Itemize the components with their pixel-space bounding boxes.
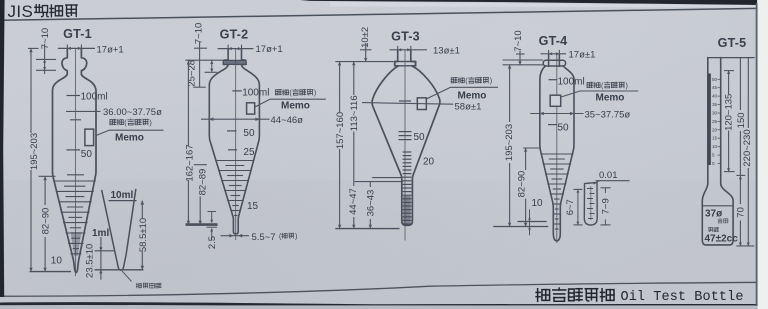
svg-text:157~160: 157~160 bbox=[335, 112, 346, 149]
GT-1 center line bbox=[75, 48, 77, 276]
GT-4 lip-level reference ticks bbox=[503, 59, 543, 61]
GT-4 tip detail hatch bbox=[587, 188, 593, 190]
GT-5 tube top line (extends as dim reference) bbox=[708, 57, 755, 59]
svg-text:10: 10 bbox=[712, 144, 718, 149]
bottom page edge (thick dark) bbox=[0, 303, 768, 305]
svg-text:Memo: Memo bbox=[596, 92, 625, 103]
svg-text:): ) bbox=[490, 77, 492, 85]
svg-text:50: 50 bbox=[712, 77, 718, 82]
GT-3 annotation leader bbox=[427, 87, 451, 99]
GT-2 center line bbox=[235, 49, 237, 240]
svg-text:23.5±10: 23.5±10 bbox=[84, 244, 95, 278]
GT-1 baseline bbox=[30, 271, 72, 273]
svg-text:15: 15 bbox=[247, 201, 259, 212]
GT-5 dim 220~230 bbox=[747, 58, 749, 128]
GT-4 vessel outline bbox=[540, 66, 574, 241]
dim 23.5±10 bbox=[100, 237, 102, 251]
GT-5 dim 120~135 bbox=[724, 70, 734, 72]
svg-text:36.00~37.75ø: 36.00~37.75ø bbox=[103, 107, 162, 118]
svg-text:47±2cc: 47±2cc bbox=[705, 233, 739, 244]
GT-4 mouth dim line 17ø±1 bbox=[541, 53, 567, 55]
svg-text:50: 50 bbox=[558, 122, 570, 133]
GT-3 dim 113~116 and 44~47 (shared line) bbox=[353, 62, 355, 95]
GT-3 pointer 58ø±1 bbox=[362, 103, 453, 105]
GT-3 baseline bbox=[335, 228, 399, 230]
title rule bbox=[0, 8, 768, 20]
svg-text:Memo: Memo bbox=[458, 90, 487, 101]
GT-3 annotation kanji 磨砂(記錄用) bbox=[451, 78, 457, 83]
svg-text:44~46ø: 44~46ø bbox=[271, 115, 304, 126]
svg-text:37ø: 37ø bbox=[705, 208, 723, 219]
GT-2 100ml tick bbox=[232, 90, 242, 92]
svg-text:113~116: 113~116 bbox=[349, 95, 360, 131]
GT-1 graduation tick bbox=[67, 174, 84, 176]
svg-text:40: 40 bbox=[712, 94, 718, 99]
svg-text:82~89: 82~89 bbox=[197, 169, 208, 196]
GT-4 dim 35~37.75ø bbox=[530, 113, 583, 115]
top page edge (dark) bbox=[300, 0, 757, 5]
svg-text:30: 30 bbox=[712, 111, 718, 116]
detail funnel baseline bbox=[95, 269, 144, 271]
GT-3 dim 36~43 bbox=[369, 182, 371, 187]
GT-5 dim 150 / 70 line bbox=[739, 58, 741, 110]
GT-3 triple ticks 50 bbox=[399, 131, 412, 133]
GT-2 mouth dim line 17ø+1 bbox=[218, 48, 254, 50]
svg-text:0.01: 0.01 bbox=[599, 170, 618, 181]
GT-3 vessel outline bbox=[372, 50, 440, 225]
GT-5 label 以下 bbox=[718, 219, 722, 223]
area below page edge bbox=[0, 305, 768, 309]
svg-text:50: 50 bbox=[81, 149, 93, 160]
svg-text:Oil Test Bottle: Oil Test Bottle bbox=[621, 290, 744, 305]
GT-2 cone graduations bbox=[215, 160, 254, 162]
GT-3 tube graduations bbox=[403, 151, 412, 153]
GT-1 dim 195~203 bbox=[28, 47, 39, 49]
GT-1 small tick bbox=[70, 119, 81, 121]
svg-text:7~9: 7~9 bbox=[601, 198, 612, 214]
GT-2 vessel outline bbox=[209, 49, 259, 234]
GT-4 center line bbox=[556, 54, 558, 243]
svg-text:10: 10 bbox=[51, 255, 63, 266]
dim 58.5±10 bbox=[141, 201, 143, 218]
GT-2 tick 50 bbox=[227, 130, 237, 132]
GT-5 inner shoulder line 37ø level bbox=[703, 205, 733, 207]
dim 7~9 bbox=[604, 188, 606, 193]
GT-2 dim 162~167 bbox=[187, 60, 189, 146]
svg-text:36~43: 36~43 bbox=[366, 190, 377, 217]
svg-text:GT-2: GT-2 bbox=[220, 28, 249, 42]
svg-text:45: 45 bbox=[712, 85, 718, 90]
svg-text:100ml: 100ml bbox=[81, 92, 108, 103]
svg-text:): ) bbox=[149, 118, 151, 127]
GT-1 bottle outline bbox=[53, 49, 97, 273]
svg-text:17ø±1: 17ø±1 bbox=[569, 49, 596, 60]
GT-2 dim 44~46ø bbox=[201, 118, 270, 120]
svg-text:15: 15 bbox=[712, 136, 718, 141]
GT-5 graduation strip bbox=[708, 74, 711, 166]
right white scan strip bbox=[758, 0, 768, 309]
svg-text:5: 5 bbox=[712, 153, 715, 158]
GT-4 dim 82~90 bbox=[523, 147, 541, 149]
0.01 underline bbox=[596, 180, 630, 182]
svg-text:150: 150 bbox=[736, 112, 747, 128]
svg-text:13ø±1: 13ø±1 bbox=[433, 46, 460, 57]
GT-3 tube-top ticks bbox=[372, 177, 401, 179]
svg-text:82~90: 82~90 bbox=[517, 171, 528, 198]
GT-5 outline bbox=[702, 58, 733, 245]
GT-2 upper dim line bbox=[199, 42, 201, 88]
GT-3 flange-level reference tick bbox=[335, 61, 394, 63]
svg-text:100ml: 100ml bbox=[242, 88, 269, 99]
GT-3 center tick bbox=[399, 100, 411, 102]
svg-text:): ) bbox=[314, 89, 316, 97]
paper shading lower-left bbox=[0, 180, 768, 309]
detail funnel 10ml level line bbox=[109, 200, 137, 202]
GT-4 dim 195~203 bbox=[509, 65, 511, 122]
svg-text:7~10: 7~10 bbox=[513, 30, 524, 51]
svg-text:20: 20 bbox=[712, 127, 718, 132]
svg-text:162~167: 162~167 bbox=[184, 144, 195, 181]
GT-4 memo patch rect bbox=[550, 95, 561, 106]
dim 6~7 bbox=[577, 189, 579, 225]
svg-text:GT-1: GT-1 bbox=[63, 27, 92, 41]
GT-3 center line bbox=[404, 50, 406, 241]
GT-2 baseline (thick) bbox=[186, 223, 218, 226]
GT-4 flange bbox=[543, 60, 565, 66]
GT-4 100ml tick bbox=[549, 79, 558, 81]
GT-1 cone graduations bbox=[53, 180, 95, 182]
GT-2 tip dim 5.5~7 bbox=[221, 235, 250, 237]
GT-3 flange bbox=[395, 62, 416, 66]
detail funnel 1ml level line bbox=[95, 250, 116, 252]
svg-text:GT-5: GT-5 bbox=[718, 36, 747, 50]
svg-text:Memo: Memo bbox=[281, 101, 310, 112]
0.01 leader bbox=[594, 181, 600, 184]
svg-text:100ml: 100ml bbox=[558, 76, 585, 87]
GT-3 mouth dim line 13ø±1 bbox=[390, 49, 428, 51]
svg-text:JIS: JIS bbox=[8, 2, 34, 21]
GT-4 neck lines bbox=[548, 54, 550, 67]
svg-text:0: 0 bbox=[712, 161, 715, 166]
GT-4 bottom ticks bbox=[518, 221, 547, 223]
GT-4 annotation kanji 磨砂(記錄用) bbox=[587, 82, 593, 87]
GT-1 pointer line 36.00~37.75ø bbox=[66, 110, 101, 112]
GT-3 tube dark fill bbox=[403, 196, 410, 224]
svg-text:82~90: 82~90 bbox=[40, 208, 51, 235]
GT-4 dim 10 small line bbox=[529, 209, 531, 235]
svg-text:70: 70 bbox=[736, 207, 747, 218]
GT-2 annotation kanji 磨砂(記錄用) bbox=[275, 90, 281, 95]
svg-text:35: 35 bbox=[712, 102, 718, 107]
GT-1 graduation 50 tick bbox=[67, 149, 81, 151]
svg-text:Memo: Memo bbox=[115, 133, 144, 144]
label 瓶底內部 bbox=[136, 283, 141, 288]
GT-4 taper graduations bbox=[540, 153, 573, 155]
GT-3 dim 157~160 bbox=[339, 62, 341, 112]
svg-text:): ) bbox=[626, 82, 628, 90]
GT-1 cone tip dark fill bbox=[71, 232, 82, 256]
detail funnel outline bbox=[102, 190, 136, 271]
GT-2 tick 25 bbox=[228, 149, 237, 151]
bottom printed border bbox=[0, 282, 768, 296]
GT-1 graduation 100ml tick bbox=[67, 95, 81, 97]
svg-text:): ) bbox=[295, 234, 297, 241]
svg-text:58ø±1: 58ø±1 bbox=[455, 102, 482, 113]
GT-1 annotation leader bbox=[96, 130, 109, 135]
svg-text:2.5: 2.5 bbox=[207, 236, 218, 249]
GT-1 mouth dim line 17ø+1 bbox=[58, 47, 95, 49]
top light band bbox=[330, 2, 757, 8]
title kanji 規格品 bbox=[35, 5, 48, 17]
right scan edge line bbox=[756, 3, 758, 306]
GT-2 mini dim arrows at lip bbox=[211, 60, 213, 72]
GT-3 memo patch rect bbox=[417, 98, 426, 110]
GT-1 annotation kanji 磨砂(記錄用) bbox=[110, 119, 116, 124]
svg-text:7~10: 7~10 bbox=[40, 28, 51, 49]
svg-text:20: 20 bbox=[423, 157, 435, 168]
svg-text:GT-3: GT-3 bbox=[391, 30, 420, 44]
caption kanji 油試驗用瓶 bbox=[536, 289, 549, 302]
GT-2 annotation leader bbox=[255, 99, 270, 107]
svg-text:10ml: 10ml bbox=[111, 190, 134, 201]
svg-text:6~7: 6~7 bbox=[565, 199, 576, 215]
GT-1 memo patch rect bbox=[85, 129, 94, 146]
svg-text:58.5±10: 58.5±10 bbox=[138, 218, 149, 252]
svg-text:17ø+1: 17ø+1 bbox=[97, 44, 124, 55]
svg-text:10: 10 bbox=[532, 198, 544, 209]
GT-4 tick 50 bbox=[548, 124, 557, 126]
GT-2 flange bar bbox=[223, 60, 246, 64]
GT-2 memo patch rect bbox=[247, 103, 255, 114]
GT-5 bottom tick bbox=[736, 245, 754, 247]
left page edge (dark strip) bbox=[0, 0, 5, 297]
svg-text:120~135: 120~135 bbox=[723, 94, 734, 131]
svg-text:25: 25 bbox=[243, 147, 255, 158]
svg-text:50: 50 bbox=[243, 128, 255, 139]
GT-2 dim 82~89 bbox=[194, 164, 207, 166]
GT-2 dim 2.5 bbox=[211, 212, 213, 223]
svg-text:7~10: 7~10 bbox=[193, 23, 204, 44]
svg-text:50: 50 bbox=[414, 132, 426, 143]
svg-text:44~47: 44~47 bbox=[348, 188, 359, 215]
GT-5 label 容量 bbox=[709, 228, 713, 232]
svg-text:25: 25 bbox=[712, 119, 718, 124]
svg-text:195~203: 195~203 bbox=[29, 133, 40, 170]
svg-text:195~203: 195~203 bbox=[504, 124, 515, 161]
GT-4 annotation leader bbox=[561, 91, 580, 97]
svg-text:17ø+1: 17ø+1 bbox=[256, 44, 283, 55]
GT-4 tip detail tube bbox=[584, 182, 597, 225]
GT-1 dim 82~90 bbox=[39, 175, 56, 177]
svg-text:220~230: 220~230 bbox=[742, 129, 753, 166]
瓶底內部 leader bbox=[122, 271, 132, 282]
svg-text:35~37.75ø: 35~37.75ø bbox=[585, 110, 631, 121]
svg-text:GT-4: GT-4 bbox=[539, 34, 568, 48]
svg-text:5.5~7: 5.5~7 bbox=[252, 232, 276, 243]
